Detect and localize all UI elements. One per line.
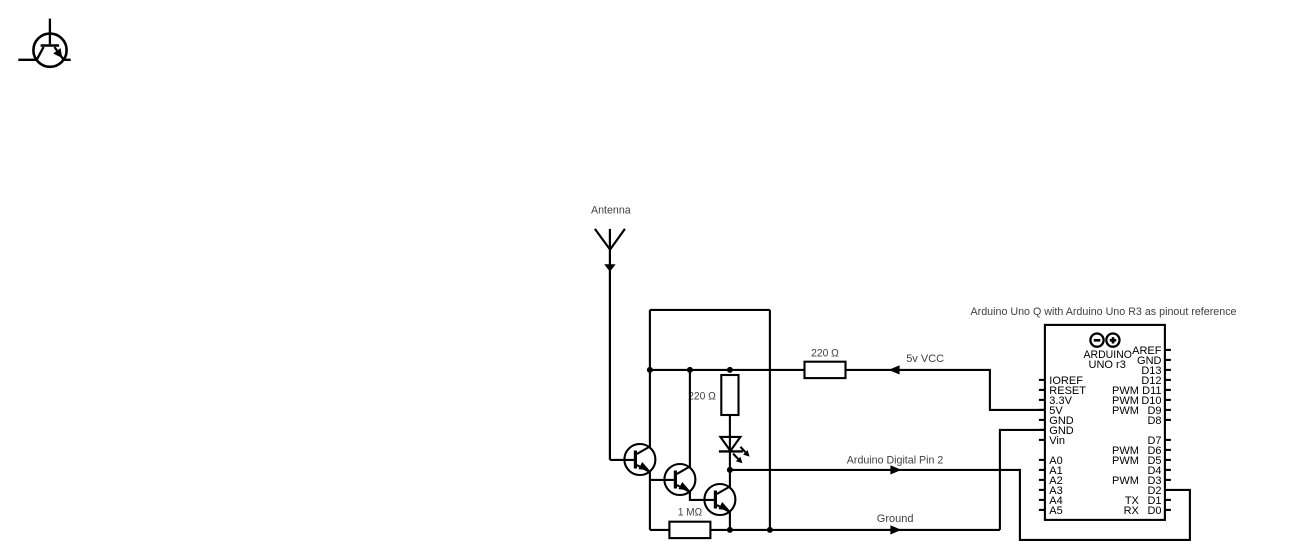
svg-text:220 Ω: 220 Ω (811, 348, 839, 360)
node rail Q2 collector (687, 367, 693, 373)
wire enclosure right edge (769, 310, 771, 530)
transistor Q3 (704, 484, 735, 515)
PWM / TX / RX labels (1112, 385, 1140, 517)
Arduino Uno U1 body (1045, 325, 1165, 520)
svg-text:Arduino Uno Q with Arduino Uno: Arduino Uno Q with Arduino Uno R3 as pin… (971, 306, 1237, 318)
svg-text:D8: D8 (1147, 415, 1161, 427)
wire ground riser to GND pin (1000, 430, 1045, 530)
svg-text:Antenna: Antenna (591, 205, 632, 217)
resistor R3 1 Mohm (669, 522, 710, 538)
node ground box corner (767, 527, 773, 533)
wire ground rail left (650, 529, 670, 531)
svg-text:PWM: PWM (1112, 455, 1139, 467)
node ground Q3 emitter (727, 527, 733, 533)
wire Arduino digital pin 2 (730, 470, 1190, 540)
svg-text:1 MΩ: 1 MΩ (678, 507, 702, 519)
arrowhead 5v VCC (889, 365, 900, 374)
wire enclosure top edge (650, 309, 770, 311)
right pin ticks (1165, 350, 1171, 510)
svg-text:Ground: Ground (877, 513, 914, 525)
wire antenna to Q1 base (610, 459, 634, 461)
wire R2 to LED and through to node (729, 415, 731, 470)
node LED / pin2 (727, 467, 733, 473)
svg-text:D0: D0 (1147, 505, 1161, 517)
wire Q1 emitter down (649, 471, 651, 530)
svg-text:220 Ω: 220 Ω (688, 390, 716, 402)
svg-text:Vin: Vin (1049, 435, 1065, 447)
transistor Q1 (624, 444, 655, 475)
Arduino logo (1090, 334, 1119, 347)
svg-text:A5: A5 (1049, 505, 1062, 517)
svg-text:PWM: PWM (1112, 475, 1139, 487)
svg-text:5v VCC: 5v VCC (906, 353, 944, 365)
app icon transistor symbol (18, 19, 70, 67)
left pin labels (1049, 375, 1086, 517)
wire 5v VCC (846, 370, 1045, 410)
wire Q3 collector (729, 470, 731, 487)
wire Q3 emitter down (729, 511, 731, 530)
svg-text:UNO r3: UNO r3 (1089, 359, 1126, 371)
right pin labels (1132, 345, 1162, 517)
node rail left (647, 367, 653, 373)
wire VCC rail (650, 369, 805, 371)
wire Q2 emitter to Q3 base (690, 491, 714, 500)
wire Q2 collector (689, 370, 691, 467)
resistor R2 220 ohm vertical (721, 375, 738, 415)
arrowhead pin 2 (890, 465, 901, 474)
transistor Q2 (664, 464, 695, 495)
svg-text:RX: RX (1124, 505, 1140, 517)
arrowhead ground (890, 525, 901, 534)
wire enclosure left edge / Q1 collector (649, 310, 651, 447)
svg-text:Arduino Digital Pin 2: Arduino Digital Pin 2 (847, 454, 944, 466)
LED D1 (719, 437, 750, 463)
resistor R1 220 ohm horizontal (805, 362, 846, 378)
wire ground rail right (710, 529, 1000, 531)
antenna symbol (595, 229, 625, 460)
node rail R2 top (727, 367, 733, 373)
svg-text:PWM: PWM (1112, 405, 1139, 417)
wire Q1 emitter to Q2 base (650, 479, 674, 481)
left pin ticks (1039, 380, 1045, 510)
